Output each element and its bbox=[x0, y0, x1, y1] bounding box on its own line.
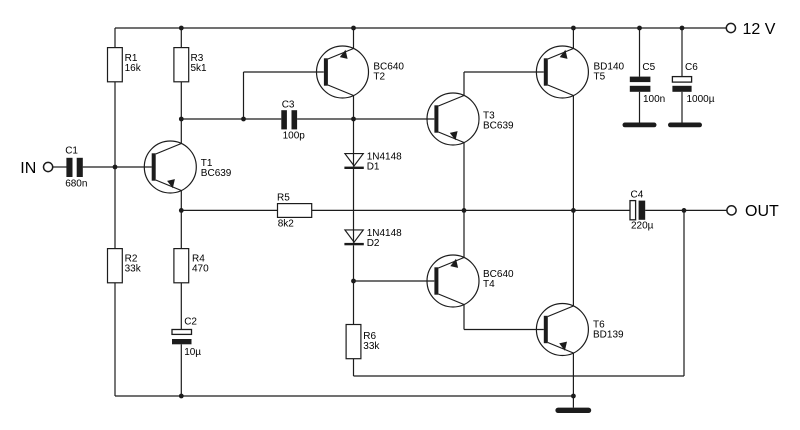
wire R4 to C2 bbox=[180, 283, 182, 330]
wire bottom line bbox=[115, 395, 573, 397]
wire T4 collector to T6 base bbox=[464, 329, 544, 331]
node rail-T2 junction bbox=[351, 26, 356, 31]
svg-text:33k: 33k bbox=[363, 341, 380, 352]
wire C4 to OUT bbox=[645, 209, 727, 211]
wire T5 emitter up bbox=[572, 28, 574, 48]
wire junction to T1 collector bbox=[180, 119, 182, 144]
wire C5 to ground bbox=[639, 92, 641, 123]
node input junction bbox=[113, 165, 118, 170]
svg-text:100p: 100p bbox=[283, 131, 306, 142]
svg-text:OUT: OUT bbox=[745, 203, 779, 220]
wire D1 to D2 bbox=[353, 169, 355, 243]
label R4 bbox=[192, 254, 209, 275]
capacitor C6 bbox=[672, 77, 691, 92]
svg-text:T2: T2 bbox=[373, 71, 385, 82]
label C5 bbox=[642, 62, 655, 73]
label T2 bbox=[373, 61, 404, 82]
svg-text:100n: 100n bbox=[643, 94, 665, 105]
node feedback-out junction bbox=[682, 208, 687, 213]
wire 12V rail bbox=[115, 27, 727, 29]
node T2 base tap junction bbox=[241, 117, 246, 122]
wire T4 emitter up bbox=[463, 210, 465, 257]
label C6 bbox=[685, 62, 698, 73]
resistor R2 bbox=[108, 249, 123, 283]
node rail-C6 junction bbox=[680, 26, 685, 31]
svg-text:C4: C4 bbox=[631, 189, 644, 200]
node out line T5 junction bbox=[571, 208, 576, 213]
wire T2 base vertical bbox=[243, 72, 245, 119]
label R1 bbox=[125, 53, 142, 74]
capacitor C5 bbox=[630, 77, 651, 92]
transistor T1 (BC639) bbox=[144, 141, 196, 193]
node rail-R3 junction bbox=[179, 26, 184, 31]
svg-text:16k: 16k bbox=[125, 63, 142, 74]
wire feedback vertical bbox=[683, 210, 685, 376]
diode D2 bbox=[344, 230, 363, 245]
wire C6 to ground bbox=[681, 92, 683, 123]
terminal IN bbox=[44, 162, 53, 171]
capacitor C1 bbox=[66, 158, 82, 177]
wire T1 emitter to R4 bbox=[180, 210, 182, 248]
resistor R4 bbox=[174, 249, 189, 283]
wire rail to C5 bbox=[639, 28, 641, 77]
transistor T6 (BD139) bbox=[536, 304, 588, 356]
wire junction to R6 bbox=[353, 281, 355, 325]
label D2 bbox=[367, 228, 402, 249]
resistor R5 bbox=[278, 204, 312, 218]
svg-text:C3: C3 bbox=[282, 100, 295, 111]
wire C3 line left bbox=[181, 118, 281, 120]
diode D1 bbox=[344, 154, 363, 169]
wire C3 line to T3 base bbox=[354, 118, 435, 120]
svg-text:C5: C5 bbox=[642, 62, 655, 73]
transistor T4 (BC640) bbox=[427, 255, 479, 307]
wire R6 to feedback corner bbox=[353, 359, 355, 376]
node ground junction bbox=[571, 394, 576, 399]
terminal 12V bbox=[726, 23, 735, 32]
label R2 bbox=[125, 254, 142, 275]
wire D2 to T4 base junction bbox=[353, 245, 355, 281]
svg-text:1000µ: 1000µ bbox=[687, 94, 715, 105]
wire R3 to C3 line bbox=[180, 82, 182, 119]
node T1 emitter junction bbox=[179, 208, 184, 213]
label D1 bbox=[367, 152, 402, 173]
wire T3 emitter down bbox=[463, 143, 465, 211]
svg-text:D1: D1 bbox=[367, 162, 380, 173]
node T4 base junction bbox=[351, 279, 356, 284]
transistor T2 (BC640) bbox=[317, 46, 369, 98]
svg-text:C1: C1 bbox=[65, 145, 78, 156]
label R3 bbox=[191, 53, 208, 74]
wire T1 emitter down bbox=[180, 191, 182, 211]
label T4 bbox=[483, 269, 514, 290]
svg-text:C2: C2 bbox=[184, 317, 197, 328]
capacitor C3 bbox=[281, 110, 297, 129]
wire rail to R1 bbox=[114, 28, 116, 48]
svg-text:IN: IN bbox=[20, 160, 36, 177]
node rail-C5 junction bbox=[637, 26, 642, 31]
ground main bbox=[555, 408, 591, 413]
svg-text:680n: 680n bbox=[65, 179, 87, 190]
svg-text:BC639: BC639 bbox=[483, 121, 514, 132]
svg-text:T4: T4 bbox=[483, 279, 495, 290]
svg-text:220µ: 220µ bbox=[631, 221, 654, 232]
wire C1 to T1 base bbox=[83, 166, 152, 168]
resistor R3 bbox=[174, 48, 189, 82]
node output-driver junction bbox=[462, 208, 467, 213]
svg-text:T5: T5 bbox=[594, 71, 606, 82]
wire C2 to bottom bbox=[180, 344, 182, 396]
wire T3 collector up bbox=[463, 72, 465, 95]
wire R2 to bottom bbox=[114, 283, 116, 396]
wire rail to T2 bbox=[353, 28, 355, 48]
node C3-line left junction bbox=[179, 117, 184, 122]
capacitor C4 bbox=[630, 201, 645, 220]
wire R5 line left bbox=[181, 209, 277, 211]
wire junction to D1 bbox=[353, 119, 355, 167]
terminal OUT bbox=[727, 206, 736, 215]
label T5 bbox=[594, 62, 625, 83]
node bottom junction bbox=[179, 394, 184, 399]
wire T3 collector to T5 base bbox=[464, 71, 544, 73]
wire feedback bottom bbox=[354, 375, 685, 377]
wire T2 to C3 junction bbox=[353, 96, 355, 119]
wire C3 line right bbox=[297, 118, 353, 120]
svg-text:BD139: BD139 bbox=[593, 329, 624, 340]
wire rail to C6 bbox=[681, 28, 683, 77]
svg-text:12 V: 12 V bbox=[743, 21, 776, 38]
wire T4 base wire bbox=[354, 280, 435, 282]
resistor R6 bbox=[346, 325, 361, 359]
svg-text:470: 470 bbox=[192, 264, 209, 275]
wire T4 collector down bbox=[463, 305, 465, 330]
ground C5 bbox=[623, 123, 657, 128]
label C2 bbox=[184, 317, 201, 359]
label C1 bbox=[65, 145, 87, 189]
svg-text:C6: C6 bbox=[685, 62, 698, 73]
svg-text:8k2: 8k2 bbox=[278, 218, 295, 229]
svg-text:10µ: 10µ bbox=[184, 347, 201, 358]
wire R1 to R2 bbox=[114, 82, 116, 249]
wire R5 line right bbox=[312, 209, 630, 211]
label T1 bbox=[201, 158, 232, 179]
svg-text:BC639: BC639 bbox=[201, 168, 232, 179]
svg-text:D2: D2 bbox=[367, 238, 380, 249]
wire rail to R3 bbox=[180, 28, 182, 48]
svg-text:33k: 33k bbox=[125, 264, 142, 275]
label R6 bbox=[363, 331, 380, 352]
label T3 bbox=[483, 111, 514, 132]
wire IN to C1 bbox=[53, 166, 67, 168]
wire T5 collector down bbox=[572, 96, 574, 211]
wire T6 emitter down bbox=[572, 353, 574, 396]
svg-text:5k1: 5k1 bbox=[191, 63, 208, 74]
transistor T5 (BD140) bbox=[536, 46, 588, 98]
resistor R1 bbox=[108, 48, 123, 82]
node rail-T5 junction bbox=[571, 26, 576, 31]
wire T2 base horizontal bbox=[244, 71, 324, 73]
wire T6 collector up bbox=[572, 210, 574, 306]
wire ground stub bbox=[572, 396, 574, 408]
capacitor C2 bbox=[172, 330, 192, 345]
transistor T3 (BC639) bbox=[427, 93, 479, 145]
node C3-T2 junction bbox=[351, 117, 356, 122]
ground C6 bbox=[668, 123, 702, 128]
label T6 bbox=[593, 320, 624, 341]
svg-text:R5: R5 bbox=[277, 192, 290, 203]
label C3 bbox=[282, 100, 295, 111]
